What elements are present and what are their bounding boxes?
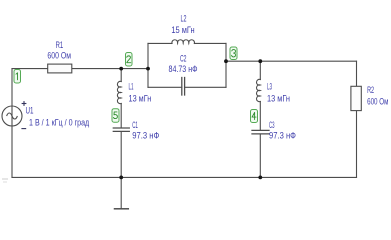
svg-text:15 мГн: 15 мГн xyxy=(171,25,194,35)
wire L1 branch upper stub xyxy=(120,69,122,82)
tank bottom rail left segment xyxy=(148,86,182,88)
tank right vertical wire xyxy=(225,43,227,87)
ground bar xyxy=(115,208,129,210)
tank top rail right segment xyxy=(194,42,226,44)
faint artifact bottom-left xyxy=(2,179,8,182)
wire R1 to tank left xyxy=(72,68,148,70)
svg-text:C1: C1 xyxy=(132,120,138,130)
wire C3 to bottom rail xyxy=(259,134,261,177)
node 5 box xyxy=(112,109,119,123)
wire L3 to C3 xyxy=(259,102,261,131)
svg-text:84.73 нФ: 84.73 нФ xyxy=(169,64,198,74)
voltage source U1 sine xyxy=(7,113,18,119)
inductor L2 coil xyxy=(172,40,195,44)
tank top rail left segment xyxy=(148,42,172,44)
node 1 box xyxy=(14,70,21,84)
capacitor C3 plates xyxy=(252,129,269,131)
svg-text:C2: C2 xyxy=(180,53,187,63)
svg-text:97.3 нФ: 97.3 нФ xyxy=(132,131,159,141)
wire top-left horizontal: source to R1 xyxy=(12,68,48,70)
svg-text:U1: U1 xyxy=(26,105,34,115)
junction tank output dot (node 3) xyxy=(224,59,228,63)
wire left vertical through source U1 xyxy=(11,69,13,178)
capacitor C1 plates xyxy=(113,127,129,129)
wire C1 to bottom rail xyxy=(120,132,122,178)
svg-text:C3: C3 xyxy=(269,120,275,130)
junction bottom rail / ground dot xyxy=(119,176,123,180)
resistor R2 body xyxy=(351,86,361,110)
svg-text:13 мГн: 13 мГн xyxy=(129,94,152,104)
svg-text:L3: L3 xyxy=(267,81,272,91)
wire R2 top stub xyxy=(356,61,358,86)
svg-text:R2: R2 xyxy=(367,85,374,95)
voltage source plus sign xyxy=(22,101,27,106)
ground stem xyxy=(120,177,122,208)
inductor L3 coil xyxy=(256,79,260,101)
tank bottom rail right segment xyxy=(185,86,226,88)
node 4 box xyxy=(251,110,258,123)
node 2 box xyxy=(126,53,133,67)
svg-text:97.3 нФ: 97.3 нФ xyxy=(269,130,296,140)
svg-text:R1: R1 xyxy=(56,40,64,50)
svg-text:600 Ом: 600 Ом xyxy=(47,51,71,61)
node 3 box xyxy=(230,47,237,60)
svg-text:13 мГн: 13 мГн xyxy=(267,94,290,104)
wire R2 bottom stub xyxy=(356,111,358,178)
svg-text:1 В / 1 кГц / 0 град: 1 В / 1 кГц / 0 град xyxy=(29,118,90,128)
junction bottom rail C3 dot xyxy=(258,176,262,180)
junction L3 top dot xyxy=(258,59,262,63)
wire L1 to C1 xyxy=(120,104,122,128)
wire L3 branch upper stub xyxy=(259,61,261,79)
resistor R1 body xyxy=(48,64,72,73)
svg-text:L2: L2 xyxy=(181,13,187,23)
tank left vertical wire xyxy=(147,43,149,87)
svg-text:600 Ом: 600 Ом xyxy=(367,97,388,107)
wire right bus: tank to R2 xyxy=(226,60,357,62)
voltage source U1 circle xyxy=(2,106,22,126)
svg-text:L1: L1 xyxy=(129,82,134,92)
voltage source minus sign xyxy=(21,128,26,130)
wire bottom rail xyxy=(12,176,357,178)
inductor L1 coil xyxy=(117,81,121,103)
capacitor C2 plates xyxy=(181,78,183,96)
junction node 2 dot xyxy=(119,67,123,71)
junction tank input dot xyxy=(146,67,150,71)
